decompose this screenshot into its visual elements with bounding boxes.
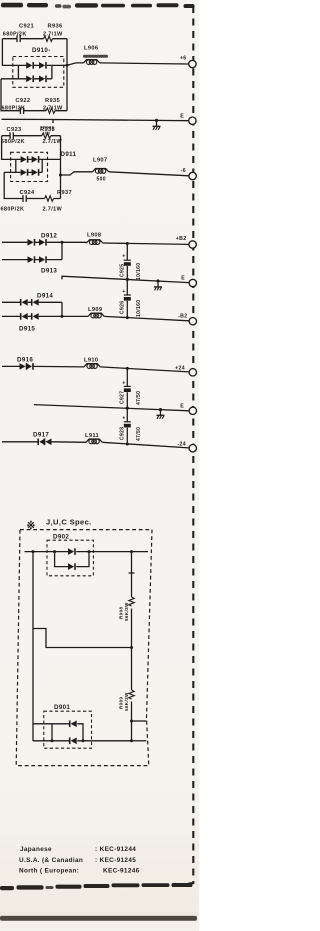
- pin E1: [189, 117, 196, 124]
- svg-text:C924: C924: [20, 190, 35, 196]
- node junction left vertical: [32, 550, 35, 553]
- dashed box D902: [47, 540, 93, 576]
- wire jog left to right branch: [33, 629, 132, 648]
- diode D917 b: [45, 439, 52, 446]
- svg-text:D901: D901: [54, 704, 70, 711]
- svg-text:R936: R936: [48, 24, 63, 30]
- node junction block2: [59, 174, 62, 177]
- diode D911 a2: [32, 156, 39, 163]
- dashed box D901: [44, 711, 92, 748]
- node junction D901 left: [51, 739, 54, 742]
- capacitor C923: [10, 132, 13, 139]
- wire junction to L908: [62, 241, 87, 244]
- wire right branch lower: [131, 702, 133, 741]
- capacitor C922: [20, 107, 23, 114]
- diode D901 b: [70, 738, 77, 745]
- wire row D916: [2, 365, 84, 368]
- pin +B2: [189, 241, 196, 248]
- diode D913 a: [28, 256, 35, 263]
- node junction D902 left: [53, 550, 56, 553]
- node junction C927 top: [126, 367, 129, 370]
- wire row B segments: [1, 78, 52, 80]
- wire L911 to pin: [102, 442, 189, 448]
- diode D911 b2: [32, 169, 39, 176]
- ink smudge under L906 label: [83, 55, 108, 58]
- svg-text:C921: C921: [19, 24, 34, 30]
- svg-text:J‚U‚C Spec.: J‚U‚C Spec.: [46, 517, 92, 526]
- pin -24: [189, 445, 196, 452]
- paper background: [0, 0, 199, 931]
- ground (E3): [160, 410, 162, 415]
- node junction jog: [130, 646, 133, 649]
- resistor R908 (vertical): [129, 597, 134, 606]
- pin -6: [189, 172, 196, 179]
- svg-text:-24: -24: [177, 442, 186, 448]
- capacitor C921: [17, 35, 20, 42]
- wire left vertical top to row A: [2, 39, 18, 66]
- resistor R938: [42, 133, 51, 138]
- wire top row block2: [2, 135, 61, 137]
- node junction right branch top: [130, 550, 133, 553]
- capacitor C927 lead: [126, 368, 128, 408]
- wire row D915: [2, 315, 88, 317]
- wire L909 to pin: [104, 316, 189, 320]
- wire L907 to pin: [109, 172, 189, 176]
- svg-text:E: E: [180, 113, 184, 119]
- svg-text:2.7/1W: 2.7/1W: [43, 32, 63, 38]
- svg-text:D910-: D910-: [32, 47, 51, 54]
- diode D915 b: [32, 313, 39, 320]
- resistor R909 (vertical): [129, 690, 134, 699]
- node junction D915: [61, 315, 64, 318]
- wire stub to box edge 1: [132, 720, 147, 722]
- diode D912 a: [28, 239, 35, 246]
- wire row D914: [2, 301, 62, 303]
- wire net E (row 1): [2, 119, 190, 123]
- wire row A segments: [16, 158, 61, 160]
- svg-text:L911: L911: [85, 433, 99, 439]
- capacitor C927: [124, 386, 131, 392]
- wire bottom row block2: [22, 198, 61, 200]
- wire row D917: [2, 441, 86, 444]
- svg-text:L906: L906: [84, 46, 98, 52]
- svg-text:10/160: 10/160: [136, 263, 142, 280]
- svg-text:2.7/1W: 2.7/1W: [43, 207, 63, 213]
- wire to L907: [61, 172, 93, 175]
- node junction D912/D913: [61, 241, 64, 244]
- svg-text:D917: D917: [33, 432, 49, 439]
- svg-text:E: E: [181, 275, 185, 281]
- node junction E3/C928: [126, 407, 129, 410]
- wire L908 to pin: [103, 243, 189, 244]
- svg-text:56K/3W: 56K/3W: [124, 692, 129, 711]
- svg-text:L907: L907: [93, 158, 107, 164]
- ground (E2): [157, 281, 159, 287]
- svg-text:D902: D902: [53, 534, 69, 541]
- node junction D901 right: [82, 739, 85, 742]
- wire main vertical block1: [66, 39, 68, 111]
- svg-text:L908: L908: [87, 233, 101, 239]
- diode D914 b: [32, 299, 39, 306]
- node junction C925 top: [126, 242, 129, 245]
- svg-text:D913: D913: [41, 268, 57, 275]
- svg-text:D915: D915: [19, 326, 35, 333]
- wire top row block1: [2, 38, 67, 40]
- capacitor C924: [23, 195, 26, 202]
- svg-text:-6: -6: [181, 168, 186, 174]
- wire junction vertical: [61, 242, 63, 259]
- wire inner bars D911: [16, 159, 42, 172]
- node junction E2/C926: [126, 278, 129, 281]
- wire L906 to pin: [100, 63, 189, 64]
- wire D902 bypass row: [55, 552, 89, 567]
- node junction C926 bottom: [126, 316, 129, 319]
- dashed box D911: [11, 152, 48, 181]
- svg-text:2.7/1W: 2.7/1W: [43, 106, 63, 112]
- inductor L909: [88, 313, 104, 318]
- node junction C928 bottom: [126, 443, 129, 446]
- wire D901 upper row: [33, 724, 83, 741]
- svg-text:D911: D911: [61, 151, 77, 158]
- capacitor C926 lead: [126, 279, 128, 317]
- dashed box D910: [13, 57, 64, 88]
- svg-text:: KEC-91245: : KEC-91245: [95, 857, 136, 864]
- pin -B2: [189, 318, 196, 325]
- wire D901 through row: [33, 740, 132, 742]
- page bottom edge shadow bar: [0, 916, 197, 921]
- svg-text:500: 500: [97, 177, 106, 183]
- svg-text:C923: C923: [7, 127, 22, 133]
- diode D902 b: [68, 563, 75, 570]
- wire row B segments: [4, 171, 42, 173]
- node ground junction E2: [156, 279, 159, 282]
- node ground junction E3: [159, 408, 162, 411]
- svg-text:L909: L909: [88, 307, 102, 313]
- diode D910 b2: [39, 76, 46, 83]
- wire right branch upper: [129, 552, 135, 597]
- pin +6: [189, 60, 196, 67]
- inductor L906: [84, 60, 100, 65]
- wire stub to box edge 2: [132, 740, 147, 742]
- wire to L906: [67, 63, 84, 65]
- svg-text:C922: C922: [15, 98, 30, 104]
- svg-text:10/160: 10/160: [136, 300, 142, 317]
- resistor R937: [45, 196, 54, 201]
- pin E2: [189, 279, 196, 286]
- diode D916 b: [26, 363, 33, 370]
- wire bottom row block1: [19, 110, 67, 112]
- diode D912 b: [39, 239, 46, 246]
- svg-text:C928: C928: [120, 427, 126, 440]
- svg-text:R908: R908: [118, 607, 123, 619]
- inductor L908: [87, 240, 103, 245]
- svg-text:+24: +24: [175, 365, 185, 371]
- dashed box J,U,C spec: [16, 530, 152, 766]
- diode D913 b: [39, 256, 46, 263]
- capacitor C926: [124, 295, 131, 301]
- svg-text:D912: D912: [41, 233, 57, 240]
- svg-text:680P/2K: 680P/2K: [3, 32, 27, 38]
- wire D902 main row: [25, 551, 149, 553]
- node junction D902 right: [88, 550, 91, 553]
- pin +24: [189, 369, 196, 376]
- resistor R936: [44, 36, 53, 41]
- wire junction vertical D914/D915: [61, 302, 63, 316]
- resistor R935: [46, 108, 55, 113]
- inductor L911: [86, 439, 102, 444]
- svg-text:C926: C926: [120, 301, 126, 314]
- svg-text:KEC-91246: KEC-91246: [103, 868, 140, 875]
- wire right branch middle: [131, 609, 133, 691]
- diode D915 a: [21, 313, 28, 320]
- node ground junction E1: [155, 119, 158, 122]
- wire D901 left bar: [51, 724, 53, 741]
- node junction block1: [66, 64, 69, 67]
- svg-text:: KEC-91244: : KEC-91244: [95, 846, 136, 853]
- svg-text:C925: C925: [120, 264, 126, 277]
- svg-text:U.S.A. (& Canadian: U.S.A. (& Canadian: [19, 857, 83, 864]
- inductor L907: [93, 169, 109, 174]
- diode D911 b1: [21, 169, 28, 176]
- diode D914 a: [21, 299, 28, 306]
- wire inner bars D910: [18, 65, 52, 78]
- svg-text:+6: +6: [180, 56, 187, 62]
- svg-text:C927: C927: [120, 391, 126, 404]
- page boundary dashed line (right edge): [180, 6, 193, 885]
- torn-edge ink smudge (bottom band): [0, 883, 193, 890]
- svg-text:+: +: [122, 416, 126, 422]
- svg-text:2.7/1W: 2.7/1W: [43, 139, 63, 145]
- wire main vertical block2: [60, 136, 62, 199]
- capacitor C925: [124, 260, 131, 266]
- wire left vertical top to row A: [2, 136, 16, 160]
- svg-text:North ( European:: North ( European:: [19, 868, 79, 875]
- node junction stub 2: [130, 739, 133, 742]
- torn-edge ink smudge (top band): [1, 3, 195, 9]
- wire net E (row 2): [62, 276, 189, 282]
- wire L910 to pin: [100, 367, 189, 372]
- svg-text:R909: R909: [118, 697, 123, 709]
- svg-text:47/50: 47/50: [136, 391, 142, 405]
- capacitor C925 lead: [126, 244, 128, 279]
- wire left vertical spec: [32, 552, 34, 741]
- diode D916 a: [20, 363, 27, 370]
- svg-text:+: +: [122, 254, 126, 260]
- diode D917 a: [38, 439, 45, 446]
- inductor L910: [84, 364, 100, 369]
- pin E3: [189, 407, 196, 414]
- svg-text:D914: D914: [37, 293, 53, 300]
- svg-text:E: E: [180, 403, 184, 409]
- ground (E1): [156, 120, 158, 126]
- capacitor C928 lead: [126, 408, 128, 444]
- svg-text:680P/2K: 680P/2K: [1, 139, 25, 145]
- svg-text:D916: D916: [17, 357, 33, 364]
- svg-text:47/50: 47/50: [136, 427, 142, 441]
- wire left vertical row B to bottom row: [4, 172, 22, 198]
- svg-text:+: +: [122, 289, 126, 295]
- svg-text:+B2: +B2: [176, 236, 187, 242]
- wire row D913: [2, 259, 62, 261]
- svg-text:R935: R935: [45, 98, 60, 104]
- svg-text:L910: L910: [84, 358, 98, 364]
- capacitor C928: [124, 422, 131, 428]
- svg-text:56K/3W: 56K/3W: [124, 602, 129, 621]
- svg-text:680P/2K: 680P/2K: [2, 106, 26, 112]
- svg-text:680P/2K: 680P/2K: [1, 207, 25, 213]
- wire net E (row 3): [34, 405, 189, 411]
- wire row A segments: [18, 64, 67, 66]
- diode D902 a: [68, 548, 75, 555]
- svg-text:Japanese: Japanese: [20, 846, 52, 853]
- diode D901 a: [70, 721, 77, 728]
- svg-text:-B2: -B2: [178, 313, 187, 319]
- svg-text:+: +: [122, 381, 126, 387]
- svg-text:R937: R937: [57, 190, 72, 196]
- wire row D912: [2, 241, 62, 243]
- diode D911 a1: [21, 156, 28, 163]
- diode D910 a2: [39, 62, 46, 69]
- node junction stub 1: [130, 720, 133, 723]
- wire left vertical row B to bottom row: [1, 79, 19, 111]
- diode D910 b1: [26, 76, 33, 83]
- diode D910 a1: [26, 62, 33, 69]
